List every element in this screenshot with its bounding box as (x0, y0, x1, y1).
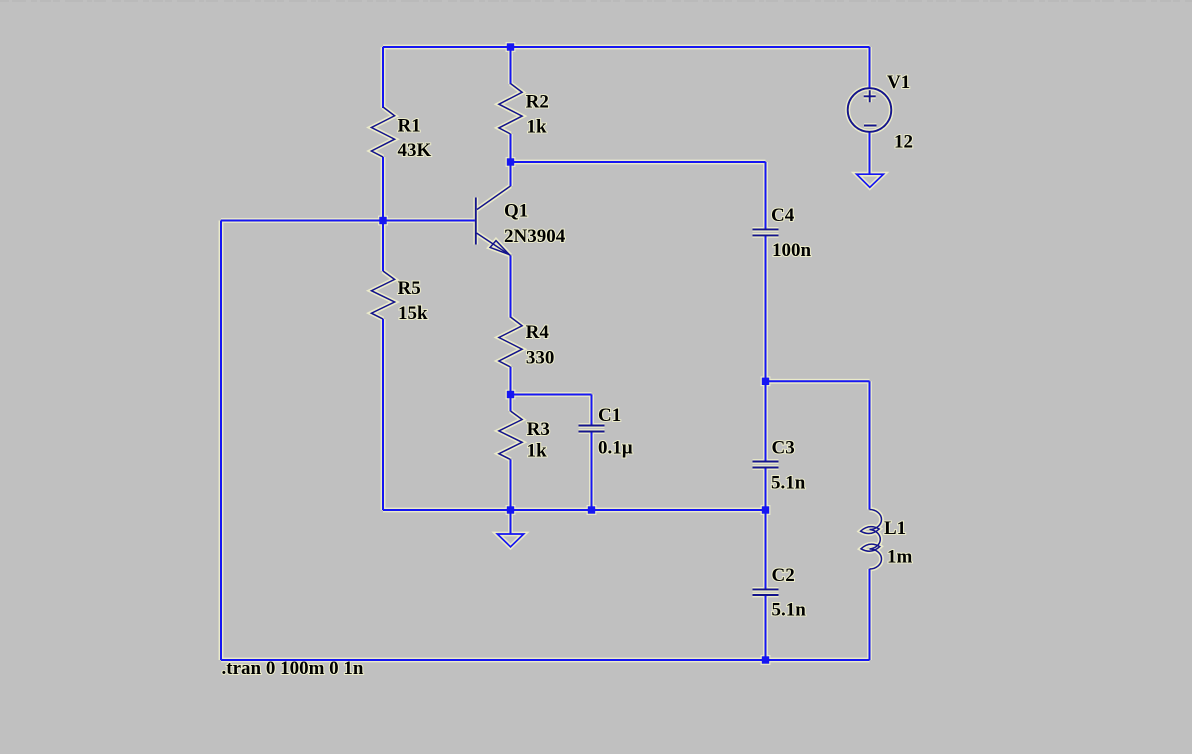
svg-text:C4: C4 (771, 205, 795, 226)
svg-text:Q1: Q1 (504, 201, 528, 222)
svg-text:100n: 100n (772, 240, 812, 261)
svg-text:0.1µ: 0.1µ (598, 438, 633, 459)
svg-text:C3: C3 (772, 438, 795, 459)
svg-text:C2: C2 (772, 565, 795, 586)
svg-text:12: 12 (894, 132, 913, 153)
svg-text:V1: V1 (887, 72, 910, 93)
svg-text:5.1n: 5.1n (772, 600, 807, 621)
svg-text:330: 330 (526, 348, 555, 369)
svg-text:2N3904: 2N3904 (504, 226, 566, 247)
svg-text:43K: 43K (398, 140, 432, 161)
svg-text:R2: R2 (526, 92, 549, 113)
svg-text:.tran 0 100m 0 1n: .tran 0 100m 0 1n (222, 658, 364, 679)
svg-text:R4: R4 (526, 322, 550, 343)
svg-text:C1: C1 (598, 405, 621, 426)
svg-text:R1: R1 (398, 116, 421, 137)
svg-text:R5: R5 (398, 278, 421, 299)
svg-text:5.1n: 5.1n (771, 473, 806, 494)
svg-text:1m: 1m (887, 547, 913, 568)
svg-text:15k: 15k (398, 303, 428, 324)
svg-text:1k: 1k (527, 117, 548, 138)
svg-text:L1: L1 (884, 518, 906, 539)
svg-text:1k: 1k (527, 441, 548, 462)
svg-text:R3: R3 (527, 419, 550, 440)
